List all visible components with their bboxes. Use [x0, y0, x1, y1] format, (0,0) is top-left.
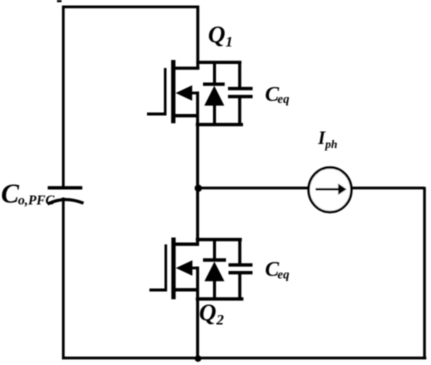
current source Iph arrow — [316, 188, 340, 191]
wire top — [62, 6, 199, 9]
diode D1 triangle — [204, 86, 224, 106]
wire main vertical: Q1 source stub — [196, 92, 199, 127]
wire left lower — [62, 198, 65, 360]
diode D1 upper branch — [213, 62, 216, 84]
capacitor Ceq2 lower branch — [238, 273, 241, 299]
diode D1 lower branch — [213, 104, 216, 125]
transistor Q1 source lead — [175, 114, 199, 117]
Q2 parallel box top — [196, 238, 242, 241]
wire main vertical: top to Q1 drain — [196, 6, 199, 70]
transistor Q1 body arrow head — [176, 85, 193, 101]
diode D2 upper branch — [213, 240, 216, 261]
diode D1 cathode bar — [203, 82, 225, 85]
wire main vertical: Q2 to bottom — [196, 298, 199, 360]
capacitor Co,PFC top plate — [48, 186, 83, 189]
capacitor Ceq2 upper branch — [238, 240, 241, 265]
transistor Q2 drain lead — [175, 242, 199, 245]
scan mark top edge — [57, 0, 62, 2]
Q1 parallel box top — [196, 61, 241, 64]
transistor Q1 drain lead — [175, 67, 199, 70]
transistor Q2 body arrow shaft — [182, 267, 199, 270]
capacitor Ceq1 bottom plate — [228, 95, 253, 98]
transistor Q1 gate bar — [164, 68, 167, 116]
Q2 parallel box bottom — [196, 297, 244, 300]
transistor Q2 source lead — [175, 288, 199, 291]
node mid junction dot — [195, 185, 202, 192]
Q1 parallel box bottom — [196, 123, 243, 126]
capacitor Ceq2 bottom plate — [229, 271, 253, 274]
transistor Q2 body arrow head — [176, 260, 193, 276]
transistor Q2 gate bar — [165, 244, 168, 291]
wire main vertical: mid node to Q2 drain — [196, 187, 199, 246]
capacitor Co,PFC curved plate — [48, 200, 84, 204]
node bottom junction dot — [195, 355, 202, 362]
capacitor Ceq2 top plate — [229, 263, 253, 266]
capacitor Ceq1 upper branch — [238, 62, 241, 88]
wire bottom — [62, 357, 426, 360]
diode D2 triangle — [204, 262, 224, 282]
wire main vertical: Q2 source stub — [196, 267, 199, 301]
current source Iph circle — [309, 168, 352, 213]
transistor Q1 gate lead — [147, 112, 166, 115]
wire middle (mid node to right) — [198, 187, 425, 190]
wire left upper — [62, 6, 65, 187]
capacitor Ceq1 lower branch — [238, 97, 241, 125]
transistor Q2 gate lead — [149, 288, 166, 291]
transistor Q1 channel bar — [171, 60, 175, 123]
diode D2 cathode bar — [203, 258, 226, 261]
transistor Q1 body arrow shaft — [182, 92, 199, 95]
capacitor Ceq1 top plate — [228, 87, 253, 90]
diode D2 lower branch — [213, 280, 216, 299]
wire main vertical: Q1 to mid node — [196, 123, 199, 189]
wire right — [423, 187, 426, 359]
transistor Q2 channel bar — [171, 238, 175, 300]
